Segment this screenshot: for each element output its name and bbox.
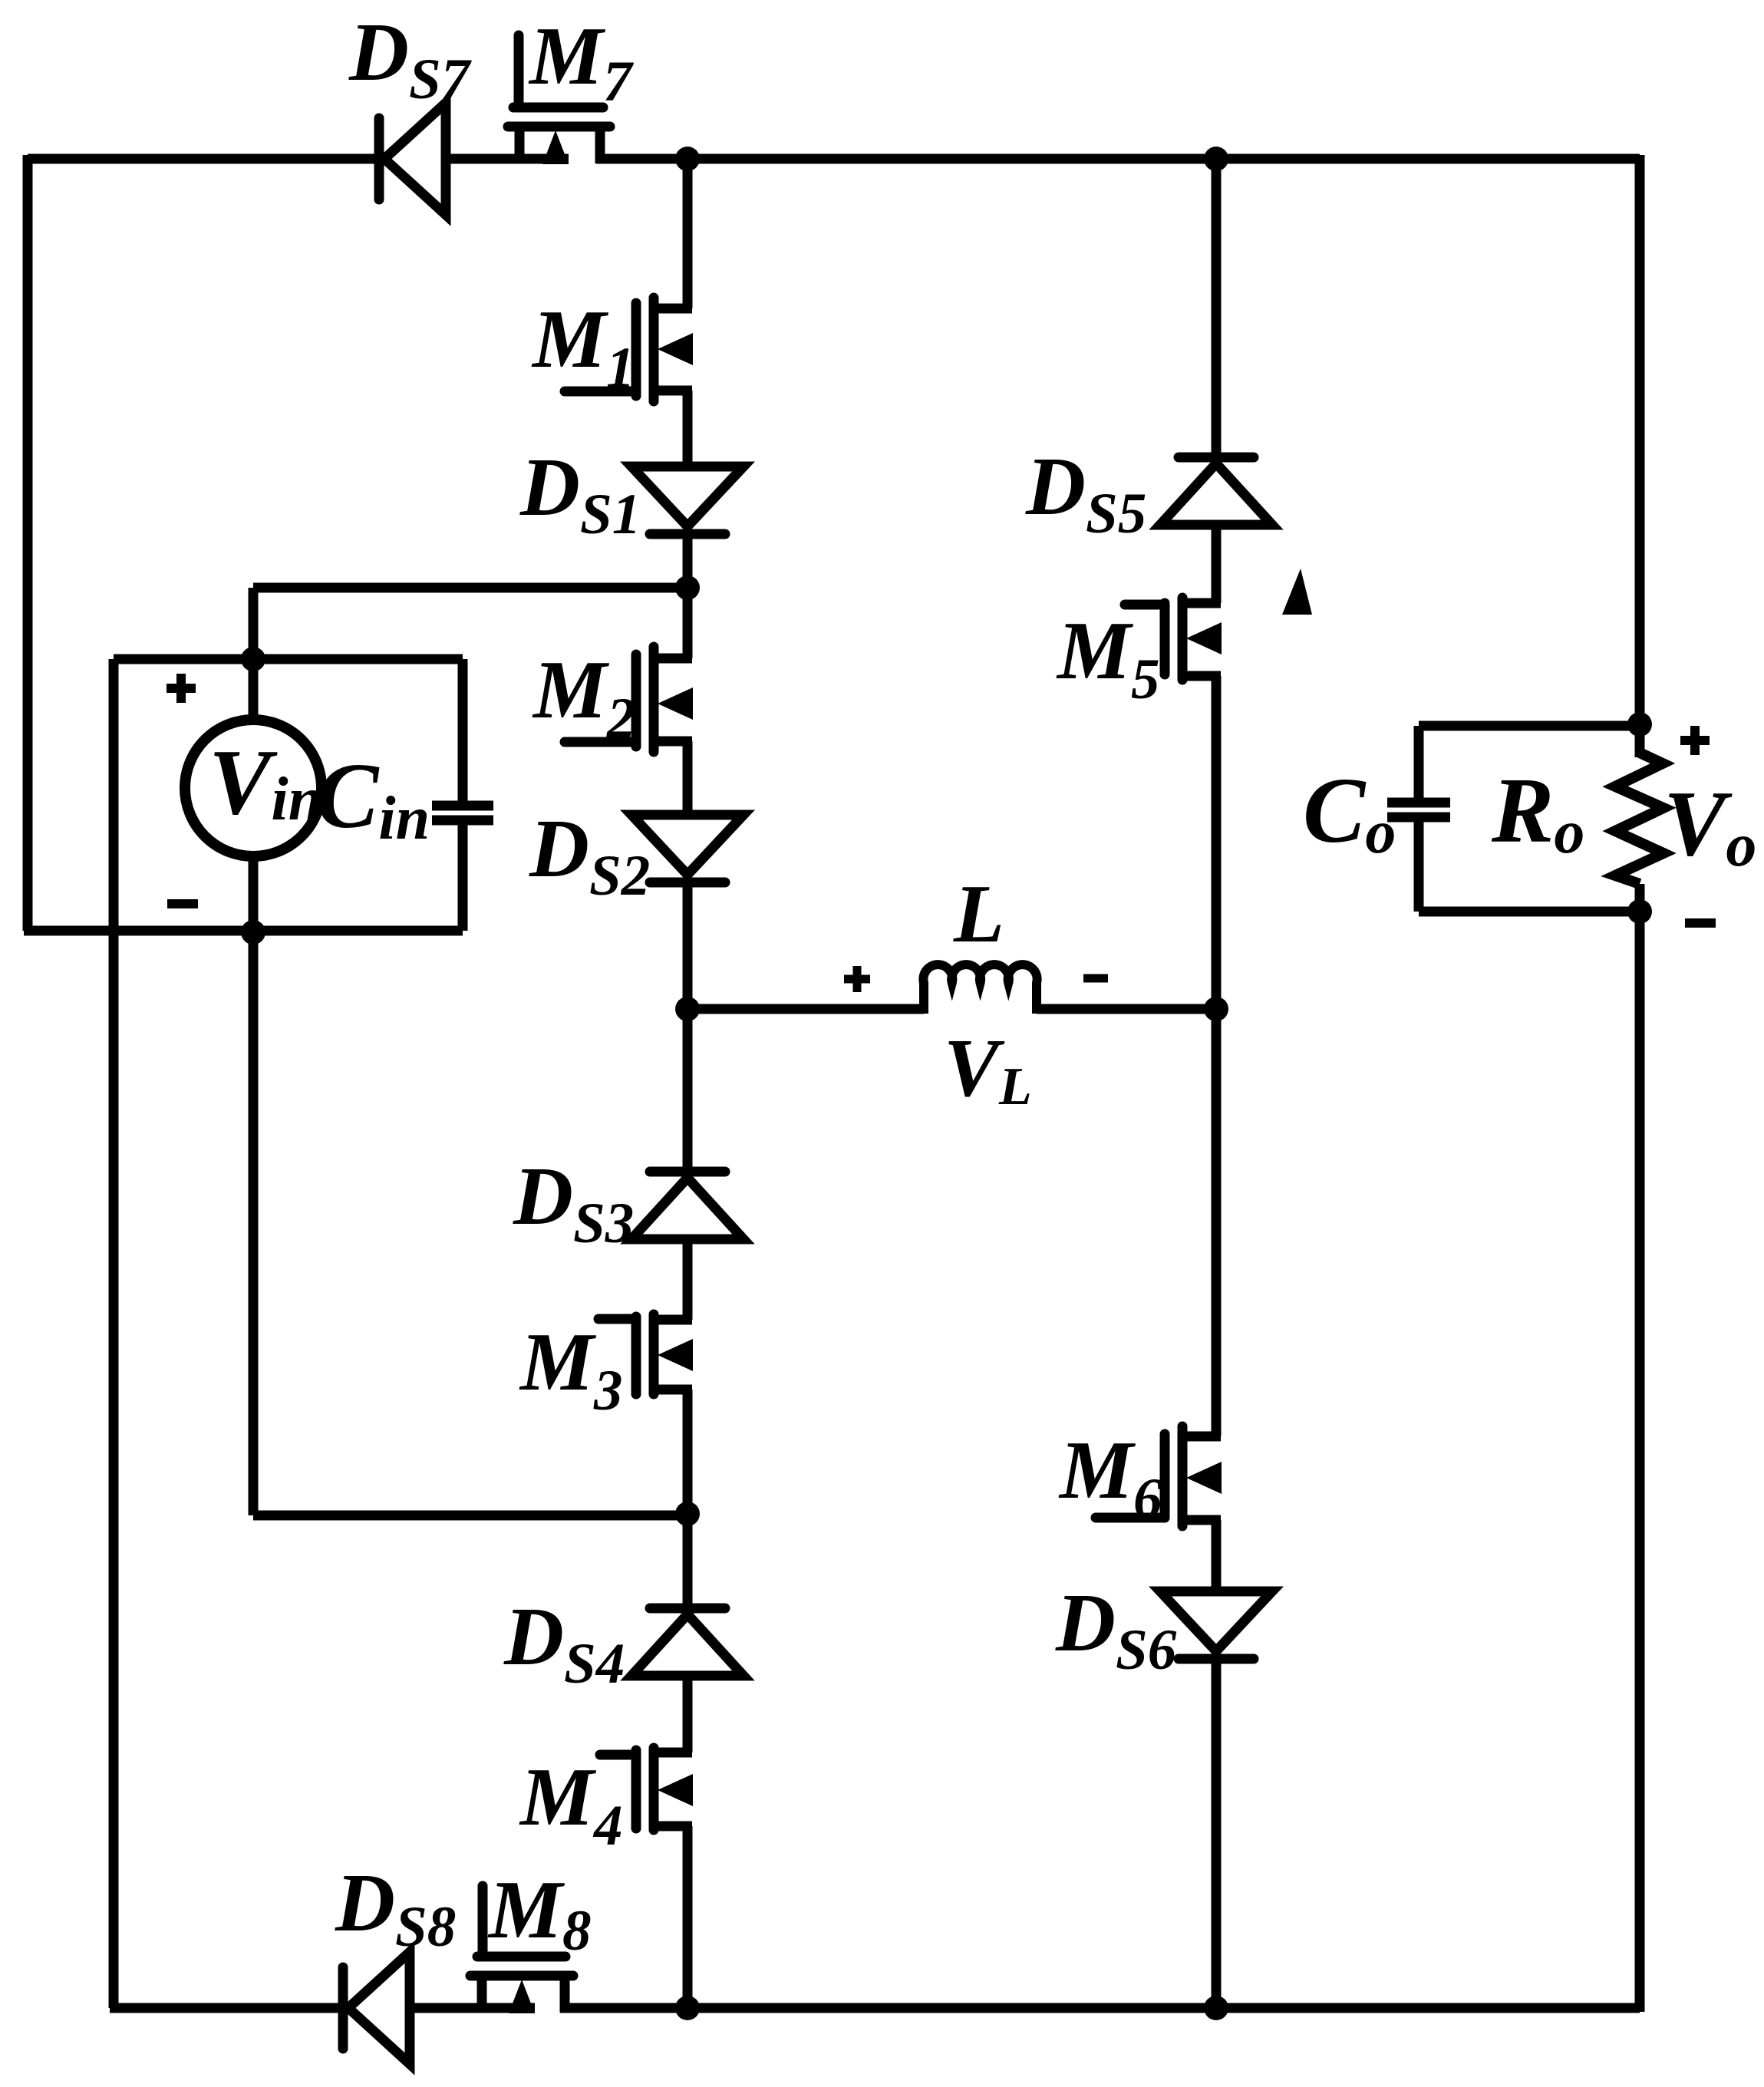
diode DS8 (343, 1952, 410, 2064)
wire bottom rail right (560, 2003, 1640, 2013)
output box bottom edge (1419, 907, 1640, 917)
current arrow (1282, 569, 1312, 615)
wire Vin- to nodeC vertical (249, 931, 259, 1515)
junction node DS1-M2 (675, 575, 700, 600)
diode DS1 (631, 467, 744, 534)
junction node output+ (1627, 712, 1652, 737)
diode DS2 (631, 815, 744, 882)
wire nodeC horizontal (253, 1511, 687, 1521)
transistor M4 (600, 1748, 693, 1830)
junction node bottom-left branch (675, 1996, 700, 2020)
wire M2-DS2 (683, 741, 693, 815)
input box right edge upper (458, 659, 468, 801)
wire M5-nodeB-M6 (1212, 676, 1222, 1436)
junction node C M3-DS4 (675, 1502, 700, 1526)
wire M6-DS6 (1212, 1520, 1222, 1591)
input box bottom edge (114, 926, 463, 936)
wire M1 drain (683, 159, 693, 308)
output box left edge lower (1414, 822, 1424, 912)
diode DS7 (379, 103, 446, 215)
diode DS4 (631, 1608, 744, 1676)
wire inductor to nodeB (1037, 1004, 1216, 1014)
input box left edge (109, 659, 119, 931)
junction node top-right branch (1204, 147, 1228, 171)
wire M3-DS4 (683, 1390, 693, 1608)
svg-text:L: L (953, 869, 1004, 960)
junction node Vin- (241, 920, 265, 945)
input box top edge (114, 654, 463, 664)
plus sign Vo (1680, 726, 1710, 755)
junction node Vin+ (241, 647, 265, 671)
wire M4-bottom (683, 1826, 693, 2008)
wire right edge upper (1635, 155, 1645, 757)
transistor M7 (508, 35, 610, 164)
capacitor Cin (432, 806, 493, 820)
wire DS5-M5 (1212, 525, 1222, 603)
wire top rail mid (446, 154, 569, 164)
junction node B inductor right (1204, 997, 1228, 1021)
wire outer left vertical (23, 155, 33, 931)
diode DS3 (631, 1172, 744, 1239)
diode DS6 (1160, 1591, 1272, 1659)
resistor Ro (1615, 753, 1663, 884)
junction node top-left branch (675, 147, 700, 171)
minus sign VL (1083, 974, 1108, 983)
transistor M8 (470, 1886, 573, 2013)
wire DS4-M4 (683, 1676, 693, 1752)
junction node output- (1627, 899, 1652, 924)
wire Vin+ vertical (249, 588, 259, 659)
diode DS5 (1160, 457, 1272, 525)
inductor L (923, 964, 1037, 1014)
transistor M1 (565, 298, 693, 401)
wire node1-Vin+ horizontal (253, 583, 687, 593)
transistor M2 (565, 647, 693, 752)
wire top rail left (28, 154, 379, 164)
junction node bottom-right branch (1204, 1996, 1228, 2020)
input box right edge lower (458, 825, 468, 931)
minus sign Vin (167, 899, 198, 908)
wire DS2-nodeA (683, 882, 693, 1172)
wire bottom rail mid (410, 2003, 535, 2013)
transistor M5 (1125, 598, 1222, 680)
wire top rail right (596, 154, 1640, 164)
wire right edge lower (1635, 884, 1645, 2012)
wire second left vertical (109, 931, 119, 2008)
transistor M6 (1096, 1426, 1222, 1526)
wire DS3-M3 (683, 1239, 693, 1320)
plus sign VL (844, 966, 870, 992)
output box top edge (1419, 721, 1640, 731)
wire DS5 anode (1212, 159, 1222, 457)
wire Vin- bottom link (24, 926, 114, 936)
wire DS1-M2 (683, 532, 693, 658)
minus sign Vo (1685, 918, 1716, 928)
plus sign Vin (167, 674, 196, 703)
wire nodeA to inductor (687, 1004, 924, 1014)
junction node A inductor left (675, 997, 700, 1021)
wire DS6-bottom (1212, 1659, 1222, 2008)
wire bottom rail left (110, 2003, 343, 2013)
transistor M3 (598, 1314, 693, 1394)
source Vin circle (185, 659, 321, 931)
capacitor Co (1387, 803, 1450, 817)
wire M1-DS1 (683, 391, 693, 467)
output box left edge upper (1414, 726, 1424, 798)
